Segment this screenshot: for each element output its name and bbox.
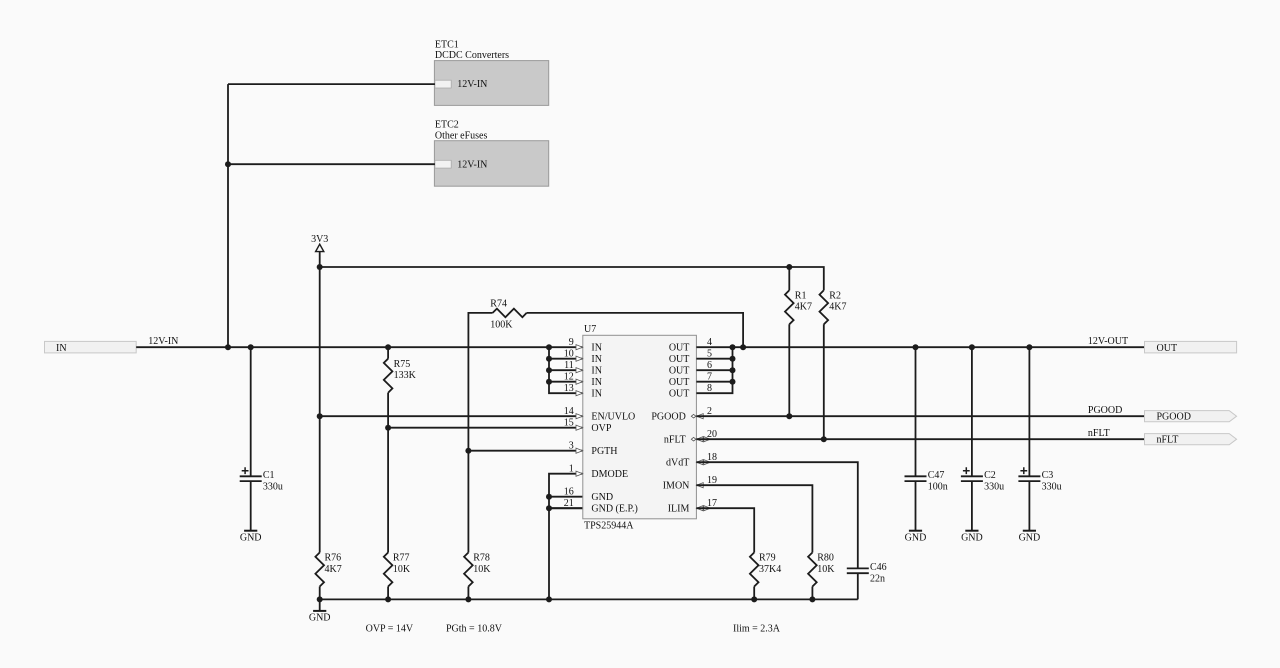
wire [250,347,252,476]
U7 pin 14 EN/UVLO [576,414,583,419]
svg-text:ILIM: ILIM [668,504,690,515]
svg-text:Other eFuses: Other eFuses [435,130,488,141]
wire [320,415,583,417]
junction [786,264,792,270]
wire [250,481,252,531]
ground at C47 [909,530,922,532]
svg-text:IMON: IMON [663,481,690,492]
svg-text:IN: IN [591,366,602,377]
junction [913,344,919,350]
C3 plus sign [1020,467,1027,474]
svg-text:15: 15 [564,417,574,428]
U7 pin 10 IN [576,356,583,361]
svg-text:18: 18 [707,452,717,463]
wire [811,587,813,600]
svg-text:IN: IN [591,377,602,388]
svg-text:6: 6 [707,360,712,371]
wire [319,599,321,611]
capacitor C47 [905,475,927,477]
svg-text:OUT: OUT [669,377,690,388]
svg-text:R79: R79 [759,553,776,564]
svg-text:4: 4 [707,337,712,348]
junction [809,596,815,602]
wire [696,438,1144,440]
block ETC2 Other eFuses [434,141,548,187]
svg-text:IN: IN [591,354,602,365]
svg-text:OVP: OVP [591,423,611,434]
junction [385,344,391,350]
svg-text:R2: R2 [829,291,841,302]
junction [248,344,254,350]
wire [788,267,790,290]
U7 pin 17 ILIM [697,506,703,511]
resistor R78 [464,553,473,587]
wire [388,427,583,429]
U7 pin 9 IN [576,345,583,350]
junction [546,494,552,500]
junction [317,413,323,419]
wire [971,481,973,531]
junction [751,596,757,602]
junction [546,505,552,511]
wire [549,496,583,498]
svg-text:7: 7 [707,371,712,382]
svg-text:19: 19 [707,475,717,486]
svg-text:22n: 22n [870,573,885,584]
junction [225,344,231,350]
C1 plus sign [242,467,249,474]
svg-text:DMODE: DMODE [591,469,628,480]
U7 pin 2 PGOOD [691,414,696,418]
svg-text:330u: 330u [1042,481,1062,492]
wire [468,450,582,452]
svg-text:R77: R77 [393,553,410,564]
wire [753,587,755,600]
svg-text:nFLT: nFLT [664,435,686,446]
power symbol 3V3 [316,244,324,251]
junction [1026,344,1032,350]
svg-text:GND: GND [905,533,927,544]
junction [465,596,471,602]
junction [546,344,552,350]
svg-text:10K: 10K [817,564,835,575]
wire [971,347,973,476]
wire [823,324,825,439]
svg-text:R74: R74 [490,299,507,310]
U7 pin 3 PGTH [576,448,583,453]
svg-text:12V-IN: 12V-IN [457,79,487,90]
wire [319,587,321,600]
svg-text:3: 3 [569,440,574,451]
U7 pin 15 OVP [576,425,583,430]
svg-text:TPS25944A: TPS25944A [584,521,634,532]
svg-text:10K: 10K [473,564,491,575]
resistor R2 [820,290,829,324]
svg-text:PGOOD: PGOOD [1157,412,1191,423]
svg-text:dVdT: dVdT [666,458,689,469]
svg-text:OUT: OUT [669,343,690,354]
U7 pin 13 IN [576,391,583,396]
svg-text:20: 20 [707,429,717,440]
wire [387,347,389,359]
resistor R1 [785,290,794,324]
wire [227,84,229,347]
junction [225,161,231,167]
svg-text:4K7: 4K7 [325,564,342,575]
wire [467,587,469,600]
resistor R74 [493,309,527,318]
svg-text:R75: R75 [394,359,411,370]
svg-text:GND: GND [961,533,983,544]
resistor R80 [808,553,817,587]
junction [385,425,391,431]
U7 pin 20 nFLT [691,437,696,441]
capacitor C1 [240,475,262,477]
svg-text:ETC2: ETC2 [435,120,459,131]
wire [468,313,492,553]
junction [317,264,323,270]
wire [696,415,1144,417]
svg-text:4K7: 4K7 [795,302,812,313]
wire [527,313,744,347]
svg-text:R80: R80 [817,553,834,564]
port PGOOD [1145,411,1237,422]
svg-text:DCDC Converters: DCDC Converters [435,50,509,61]
svg-text:EN/UVLO: EN/UVLO [591,412,635,423]
wire [696,358,732,360]
svg-text:OUT: OUT [1157,343,1178,354]
svg-text:nFLT: nFLT [1088,428,1110,439]
svg-text:GND: GND [1019,533,1041,544]
junction [740,344,746,350]
junction [730,367,736,373]
wire [549,381,583,383]
svg-text:1: 1 [569,463,574,474]
wire [387,393,389,553]
junction [821,436,827,442]
svg-text:R78: R78 [473,553,490,564]
junction [969,344,975,350]
port OUT [1145,341,1237,353]
junction [546,379,552,385]
junction [385,596,391,602]
svg-text:PGOOD: PGOOD [1088,405,1122,416]
junction [317,596,323,602]
svg-text:17: 17 [707,498,717,509]
wire [549,369,583,371]
junction [730,379,736,385]
port IN [45,341,137,353]
wire [696,347,732,393]
svg-text:OUT: OUT [669,366,690,377]
block ETC1 DCDC Converters [434,61,548,106]
wire [696,369,732,371]
U7 pin 1 DMODE [576,471,583,476]
U7 pin 19 IMON [697,483,704,488]
wire [696,346,1144,348]
svg-text:C2: C2 [984,470,996,481]
port nFLT [1145,434,1237,445]
svg-text:OVP = 14V: OVP = 14V [366,623,414,634]
wire [228,163,435,165]
svg-text:4K7: 4K7 [829,302,846,313]
svg-text:10K: 10K [393,564,411,575]
wire [915,347,917,476]
svg-text:C47: C47 [928,470,945,481]
svg-text:100K: 100K [490,320,513,331]
resistor R79 [750,553,759,587]
svg-text:330u: 330u [263,481,283,492]
svg-text:12V-IN: 12V-IN [457,159,487,170]
wire [1028,481,1030,531]
svg-text:14: 14 [564,406,574,417]
wire [387,587,389,600]
wire [857,573,859,599]
wire [136,346,583,348]
resistor R77 [384,553,393,587]
ground at C2 [965,530,978,532]
capacitor C2 [961,475,983,477]
ETC1 pin 12V-IN [435,80,451,88]
svg-text:21: 21 [564,498,574,509]
wire [228,83,435,85]
ground at C1 [244,530,257,532]
wire [549,507,583,509]
svg-text:PGth = 10.8V: PGth = 10.8V [446,623,503,634]
ETC2 pin 12V-IN [435,160,451,168]
wire [915,481,917,531]
svg-text:C46: C46 [870,562,887,573]
ground at C3 [1023,530,1036,532]
svg-text:133K: 133K [394,370,417,381]
svg-text:3V3: 3V3 [311,234,328,245]
svg-text:PGOOD: PGOOD [651,412,685,423]
svg-text:12V-OUT: 12V-OUT [1088,336,1128,347]
svg-text:10: 10 [564,348,574,359]
wire [549,474,583,600]
capacitor C46 [847,567,869,569]
svg-text:ETC1: ETC1 [435,39,459,50]
svg-text:IN: IN [591,343,602,354]
wire [320,267,824,290]
svg-text:C1: C1 [263,470,275,481]
svg-text:330u: 330u [984,481,1004,492]
capacitor C3 [1018,475,1040,477]
svg-text:5: 5 [707,348,712,359]
svg-text:11: 11 [564,360,574,371]
wire [788,324,790,416]
wire [696,462,857,568]
svg-text:12V-IN: 12V-IN [148,336,178,347]
svg-text:IN: IN [56,343,67,354]
wire [549,347,583,393]
U7 pin 12 IN [576,379,583,384]
svg-text:37K4: 37K4 [759,564,781,575]
svg-text:OUT: OUT [669,354,690,365]
junction [786,413,792,419]
C2 plus sign [963,467,970,474]
junction [546,356,552,362]
svg-text:GND: GND [240,533,262,544]
junction [465,448,471,454]
svg-text:R1: R1 [795,291,807,302]
svg-text:Ilim = 2.3A: Ilim = 2.3A [733,623,781,634]
svg-text:12: 12 [564,371,574,382]
svg-text:13: 13 [564,383,574,394]
resistor R76 [315,553,324,587]
svg-text:8: 8 [707,383,712,394]
wire [549,358,583,360]
svg-text:100n: 100n [928,481,948,492]
svg-text:nFLT: nFLT [1157,435,1179,446]
wire [1028,347,1030,476]
svg-text:16: 16 [564,486,574,497]
junction [730,356,736,362]
svg-text:GND: GND [591,492,613,503]
resistor R75 [384,359,393,393]
ground [313,610,326,612]
svg-text:C3: C3 [1042,470,1054,481]
IC U7 TPS25944A body [583,335,697,519]
wire [320,598,858,600]
svg-text:IN: IN [591,389,602,400]
U7 pin 11 IN [576,368,583,373]
wire [696,508,754,552]
junction [546,367,552,373]
svg-text:GND (E.P.): GND (E.P.) [591,504,637,515]
svg-text:GND: GND [309,613,331,624]
svg-text:9: 9 [569,337,574,348]
junction [546,596,552,602]
svg-text:U7: U7 [584,324,596,335]
svg-text:OUT: OUT [669,389,690,400]
wire [319,252,321,553]
U7 pin 18 dVdT [697,460,703,465]
junction [730,344,736,350]
wire [696,381,732,383]
svg-text:PGTH: PGTH [591,446,617,457]
svg-text:2: 2 [707,406,712,417]
wire [696,485,812,552]
svg-text:R76: R76 [325,553,342,564]
